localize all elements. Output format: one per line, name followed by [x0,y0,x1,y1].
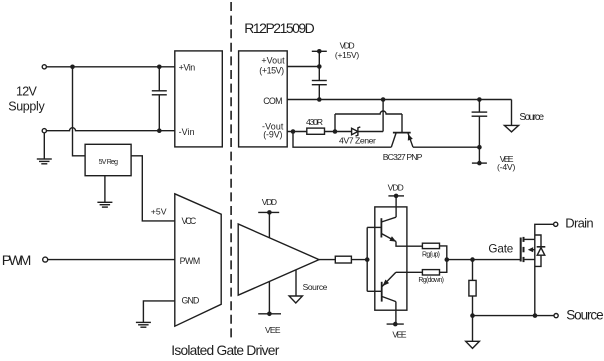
drain lead [524,238,535,240]
capacitor C3 [478,100,480,113]
buffer source stub [295,270,297,296]
transistor PNP bottom [381,282,383,302]
terminal Source [554,314,558,318]
resistor Rg(down) [422,270,439,275]
svg-text:BC327 PNP: BC327 PNP [383,152,423,162]
svg-text:+Vin: +Vin [179,62,196,72]
svg-text:+Vout: +Vout [261,56,285,66]
svg-text:Source: Source [566,308,603,323]
transistor NPN top [380,218,382,237]
wire -Vout [287,131,307,133]
wire COM rail [287,99,511,101]
terminal PWM [43,257,48,262]
converter output box [239,51,288,147]
VEE bar buffer [268,282,270,314]
node cap bottom [157,128,162,133]
wire zener to COM [382,100,384,132]
capacitor C1 [158,67,160,91]
dashed separator [230,2,232,342]
terminal 12V+ [42,65,46,69]
node A [333,129,338,134]
svg-text:Rg(down): Rg(down) [418,277,444,284]
svg-text:PWM: PWM [2,253,32,269]
VDD bar push-pull [388,195,404,197]
wire PWM [48,259,175,261]
svg-text:(+15V): (+15V) [335,50,359,60]
ground [43,133,45,159]
ground chevron [472,316,474,342]
svg-text:430R: 430R [306,117,323,127]
svg-text:VDD: VDD [340,40,355,50]
wire 5V out to VCC [131,156,175,221]
wire buffer out [319,259,335,261]
wire 0V rail with hop [46,128,174,131]
mosfet Q1 [520,238,522,262]
svg-text:PWM: PWM [180,256,201,266]
resistor series [335,256,351,263]
svg-text:Drain: Drain [565,216,593,231]
VDD bar buffer [258,211,279,213]
node +Vout [317,64,322,69]
driver trapezoid [175,194,221,326]
input bus [365,257,370,262]
VDD (+15V) terminal bar [312,50,327,52]
svg-text:(-4V): (-4V) [497,162,515,172]
wire GND to ground [143,301,174,322]
zener diode 4V7 [352,128,358,134]
regulator 5V Reg [85,144,131,175]
svg-text:VDD: VDD [262,197,277,207]
svg-text:VEE: VEE [392,330,407,340]
wire +12V rail [46,66,174,68]
wire gate [447,259,521,261]
VEE bar push-pull [387,323,404,325]
wire -9V down to rail [293,132,391,148]
svg-text:(-9V): (-9V) [263,130,282,140]
svg-text:+5V: +5V [151,207,167,217]
terminal Drain [554,222,558,226]
svg-text:12V: 12V [16,85,37,99]
resistor pulldown [472,260,474,281]
VEE (-4V) terminal [478,147,480,163]
svg-text:Source: Source [519,112,544,123]
resistor 430R [307,128,325,134]
body diode [535,235,541,247]
capacitor C2 [318,67,320,81]
svg-text:5V Reg: 5V Reg [99,159,118,166]
svg-text:Isolated Gate Driver: Isolated Gate Driver [171,343,279,358]
svg-text:VDD: VDD [388,183,404,193]
svg-text:COM: COM [263,96,282,106]
svg-text:VEE: VEE [265,325,281,335]
svg-text:Supply: Supply [8,100,45,114]
source lead [524,259,535,261]
node +12V junction [70,65,75,70]
svg-text:-Vin: -Vin [179,127,195,137]
svg-text:Source: Source [303,282,328,292]
svg-text:Rg(up): Rg(up) [422,251,440,258]
wire emitter to VEE node [413,146,479,148]
wire +Vout to VDD [287,51,319,66]
svg-text:(+15V): (+15V) [259,66,284,76]
wire base loop with hop [335,111,402,114]
svg-text:R12P21509D: R12P21509D [244,20,314,36]
converter input box [175,51,223,147]
bottom source rail [470,313,475,318]
svg-text:Gate: Gate [488,243,513,256]
node cap top [157,65,162,70]
resistor Rg(up) [422,243,439,248]
svg-text:VCC: VCC [182,216,197,226]
source return arm [511,100,513,126]
wire 12V to 5V reg [73,67,86,156]
ground below 5V reg [104,176,106,203]
push-pull box [375,207,407,310]
transistor BC327 [393,132,411,134]
svg-text:4V7 Zener: 4V7 Zener [339,135,376,145]
terminal 12V- [42,129,46,133]
ground below driver [136,321,151,323]
svg-text:GND: GND [182,295,200,305]
buffer triangle [238,224,319,295]
substrate arrow [533,249,535,251]
